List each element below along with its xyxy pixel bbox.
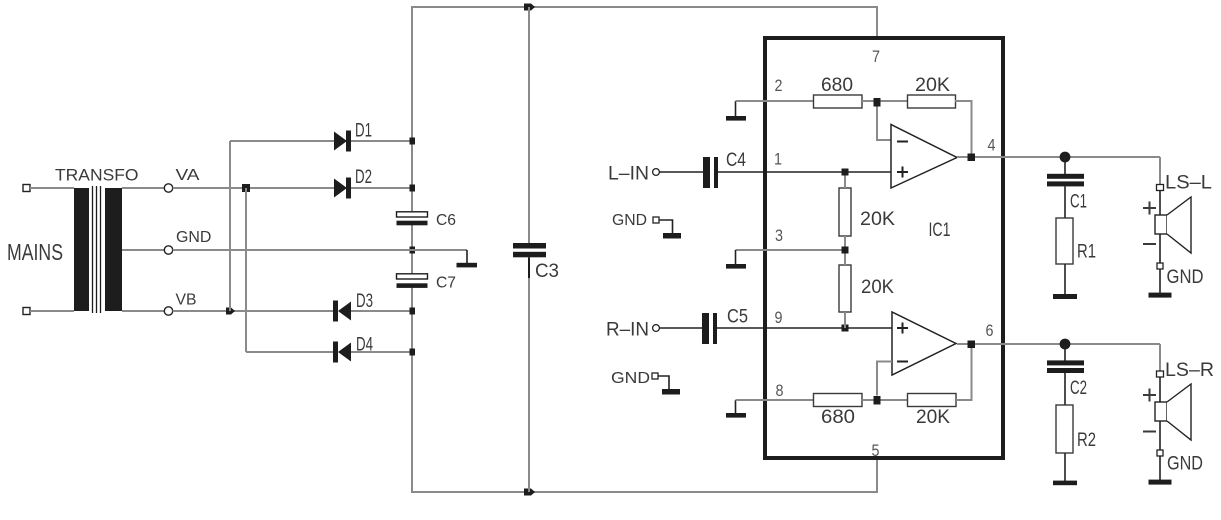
wire: +V top rail from rectifier to IC pin 7: [412, 7, 877, 211]
wire: D1 row: [230, 140, 334, 142]
ground: LS-R ground bar: [1149, 480, 1172, 485]
resistor R1: [1056, 218, 1073, 264]
wire: C4 to op-amp 1 non-inverting input (pin 1): [718, 171, 891, 173]
junction: D1 to rail: [410, 138, 416, 145]
wire: VA branch down to D4 row: [245, 188, 247, 352]
wire: rail segment C6 to C7 through GND node: [411, 225, 413, 274]
wire: GND row to PSU ground: [173, 249, 467, 251]
terminal R-IN: [653, 325, 660, 332]
svg-text:IC1: IC1: [929, 220, 951, 241]
svg-text:C3: C3: [535, 261, 559, 282]
svg-text:1: 1: [774, 150, 782, 169]
svg-text:680: 680: [821, 75, 853, 96]
capacitor C1: [1047, 174, 1084, 187]
terminal speaker R ground: [1157, 450, 1163, 456]
terminal LS-L: [1157, 185, 1164, 191]
junction: D2 to rail: [410, 185, 416, 192]
wire: pin1 node to 20K top: [844, 176, 846, 189]
ground: PSU ground symbol: [457, 250, 478, 267]
svg-text:C4: C4: [726, 150, 746, 171]
wire: terminal to speaker L: [1159, 191, 1161, 216]
ground: R1 ground bar: [1053, 294, 1077, 299]
terminal VB: [164, 307, 172, 315]
label speaker R minus: [1143, 431, 1156, 433]
capacitor C5: [702, 313, 717, 344]
terminal: mains input bottom: [23, 308, 30, 315]
wire: secondary GND tap lead: [122, 249, 164, 251]
wire: speaker L to lower terminal: [1159, 234, 1161, 263]
svg-text:C5: C5: [727, 307, 748, 328]
svg-text:GND: GND: [611, 370, 650, 387]
terminal GND (R input): [652, 373, 658, 379]
svg-text:20K: 20K: [861, 277, 894, 298]
junction: op-amp 2 output node: [968, 341, 976, 349]
diode D2: [334, 178, 412, 199]
resistor R2: [1056, 405, 1073, 453]
svg-text:20K: 20K: [915, 75, 950, 96]
svg-text:3: 3: [775, 226, 783, 245]
wire: op-amp 2 output (pin 6) to LS-R: [957, 343, 1160, 345]
svg-text:C6: C6: [436, 212, 456, 229]
junction: op-amp 1 output node: [968, 154, 976, 162]
speaker LS-L: [1155, 197, 1191, 253]
junction: D4 to rail: [410, 349, 416, 356]
wire: R-IN to C5: [659, 327, 702, 329]
wire: op-amp 1 output (pin 4) to LS-L: [957, 156, 1160, 158]
wire: R input ground lead: [658, 376, 669, 389]
svg-text:R2: R2: [1077, 430, 1096, 451]
svg-text:LS–L: LS–L: [1165, 173, 1212, 194]
svg-text:D3: D3: [356, 291, 373, 312]
capacitor C7: [397, 274, 428, 288]
svg-text:VA: VA: [176, 167, 200, 184]
svg-text:R–IN: R–IN: [606, 320, 649, 341]
ground: pin 3 ground: [726, 250, 746, 269]
svg-text:D4: D4: [356, 335, 373, 356]
diode D1: [334, 131, 412, 152]
junction: C2 node: [1060, 339, 1071, 350]
resistor 20K (ch2 feedback): [908, 394, 957, 407]
IC1 outline: [765, 38, 1003, 458]
terminal LS-R: [1157, 371, 1164, 377]
svg-text:680: 680: [821, 407, 855, 428]
wire: secondary VA lead: [122, 187, 164, 189]
wire: pin 8 row: [736, 399, 814, 401]
svg-text:MAINS: MAINS: [7, 239, 63, 265]
junction: VA / D4 branch: [242, 184, 250, 192]
svg-text:GND: GND: [612, 212, 647, 229]
svg-text:R1: R1: [1077, 242, 1096, 263]
wire: R2 to ground: [1064, 453, 1066, 481]
wire: mains bottom lead: [30, 310, 74, 312]
junction: C3 top to +V rail: [524, 4, 535, 11]
label speaker L plus: [1143, 202, 1156, 215]
wire: op-amp 2 inverting input to feedback node: [877, 362, 892, 396]
wire: pin3 node to lower 20K: [844, 254, 846, 266]
wire: down to LS-R terminal: [1159, 344, 1161, 371]
junction: C3 bottom to -V rail: [524, 489, 535, 496]
svg-text:GND: GND: [176, 229, 211, 246]
svg-text:20K: 20K: [860, 209, 895, 230]
wire: pin 2 row: [736, 100, 814, 102]
wire: terminal to ground bar: [1159, 456, 1161, 480]
capacitor C6: [397, 212, 428, 226]
wire: -V bottom rail from rectifier to IC pin 5: [412, 287, 877, 492]
wire: down to LS-L terminal: [1159, 157, 1161, 185]
ground: R input ground bar: [662, 389, 680, 395]
junction: pin3 / bias node: [842, 247, 849, 254]
svg-text:VB: VB: [176, 292, 197, 309]
svg-text:GND: GND: [1167, 267, 1204, 288]
ground: L input ground bar: [663, 233, 681, 239]
terminal: mains input top: [23, 185, 30, 192]
junction: GND row to rail: [410, 247, 416, 254]
terminal VA: [164, 184, 172, 192]
junction: 680/20K node (ch1): [874, 98, 881, 107]
svg-text:8: 8: [776, 381, 784, 400]
junction: pin1 row / 20K bias: [842, 169, 849, 176]
svg-text:GND: GND: [1167, 454, 1203, 475]
wire: 680 to 20K (ch2): [862, 399, 908, 401]
wire: terminal to speaker R: [1159, 377, 1161, 402]
wire: terminal to ground bar: [1159, 269, 1161, 293]
wire: output node down to C1: [1064, 157, 1066, 174]
wire: output node down to C2: [1064, 344, 1066, 361]
junction: VB / D1 branch: [226, 308, 235, 315]
junction: C1 node: [1060, 152, 1071, 163]
junction: D3 to rail: [410, 308, 416, 315]
wire: D4 row: [246, 351, 333, 353]
junction: 680/20K node (ch2): [874, 396, 881, 405]
wire: C2 to R2: [1064, 373, 1066, 405]
resistor 680 (ch2 feedback): [814, 394, 863, 407]
wire: C5 to op-amp 2 non-inverting input (pin 9): [717, 327, 892, 329]
label speaker L minus: [1143, 243, 1156, 245]
svg-text:D2: D2: [355, 167, 372, 188]
resistor 20K (ch1 feedback): [908, 95, 956, 108]
capacitor C4: [703, 157, 718, 188]
svg-text:C2: C2: [1070, 378, 1087, 399]
label speaker R plus: [1143, 389, 1156, 402]
terminal speaker L ground: [1157, 263, 1163, 269]
svg-text:LS–R: LS–R: [1165, 360, 1214, 381]
wire: 20K to output node (ch1): [955, 101, 972, 157]
terminal GND (L input): [653, 217, 659, 223]
svg-text:D1: D1: [355, 121, 372, 142]
wire: speaker R to lower terminal: [1159, 421, 1161, 450]
svg-text:9: 9: [775, 308, 783, 327]
terminal GND (transformer): [164, 246, 172, 254]
transformer TRANSFO: [74, 186, 122, 313]
wire: C3 branch vertical: [528, 7, 530, 492]
wire: feedback node to op-amp 1 inverting input: [877, 107, 891, 141]
wire: 20K bottom to pin3 row: [844, 236, 846, 250]
wire: VB branch up to D1 row: [229, 141, 231, 311]
wire: C1 to R1: [1064, 186, 1066, 218]
op-amp U1a: [891, 125, 957, 189]
capacitor C3: [513, 243, 546, 278]
svg-text:L–IN: L–IN: [608, 164, 649, 185]
op-amp U1b: [892, 312, 956, 375]
wire: 20K to output node (ch2): [956, 344, 972, 400]
ground: pin 8 ground: [726, 400, 746, 418]
wire: secondary VB lead: [122, 310, 164, 312]
svg-text:2: 2: [775, 76, 783, 95]
ground: LS-L ground bar: [1149, 293, 1172, 298]
svg-text:4: 4: [988, 136, 996, 155]
wire: pin 3 row: [736, 249, 846, 251]
wire: mains top lead: [30, 187, 74, 189]
resistor 20K (bias upper): [839, 188, 851, 236]
junction: pin9 row / 20K bias: [842, 325, 849, 332]
terminal L-IN: [653, 169, 660, 176]
wire: L-IN to C4: [659, 171, 703, 173]
svg-text:C7: C7: [436, 275, 456, 292]
wire: lower 20K to pin9 row: [844, 312, 846, 328]
svg-text:6: 6: [986, 321, 994, 340]
resistor 20K (bias lower): [839, 265, 851, 312]
resistor 680 (ch1 feedback): [814, 95, 863, 108]
wire: R1 to ground: [1064, 264, 1066, 294]
svg-text:TRANSFO: TRANSFO: [55, 166, 139, 185]
svg-text:C1: C1: [1070, 192, 1087, 213]
diode D3: [333, 301, 412, 322]
wire: VB row to D3: [173, 310, 333, 312]
wire: 680 to 20K (ch1): [862, 100, 907, 102]
ground: R2 ground bar: [1053, 481, 1077, 486]
ground: pin 2 ground: [726, 101, 746, 121]
wire: L input ground lead: [659, 220, 673, 233]
capacitor C2: [1047, 360, 1084, 373]
svg-text:5: 5: [872, 441, 880, 460]
svg-text:7: 7: [872, 47, 880, 66]
svg-text:20K: 20K: [916, 407, 950, 428]
wire: VA row to D2: [173, 187, 334, 189]
speaker LS-R: [1155, 384, 1191, 440]
diode D4: [333, 342, 412, 363]
